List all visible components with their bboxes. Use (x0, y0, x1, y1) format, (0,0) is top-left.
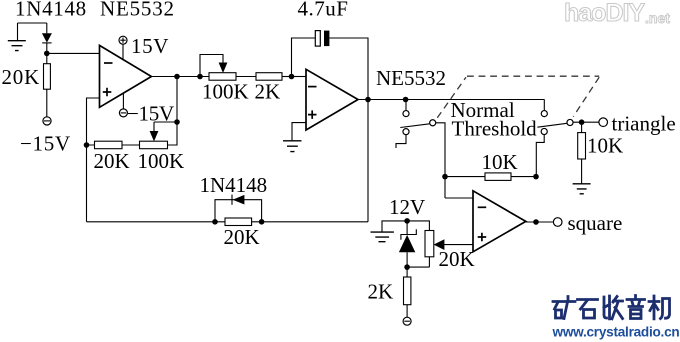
wire node A to U1 inverting input (47, 52, 100, 54)
S1a common pole (430, 120, 436, 126)
terminal square output (553, 218, 562, 227)
svg-text:NE5532: NE5532 (100, 0, 175, 21)
wire U2 non-inverting input to ground (292, 123, 306, 141)
resistor R5 2K (horizontal) (256, 73, 292, 81)
potentiometer R3 100K (horizontal, wiper to output) (140, 122, 178, 149)
svg-text:.net: .net (645, 10, 670, 26)
resistor R7 10K (horizontal feedback) (445, 173, 536, 181)
resistor R1 20K (vertical) (44, 53, 51, 116)
watermark haoDIY.net (564, 0, 670, 27)
op-amp U1 NE5532 (100, 45, 152, 107)
U1 V+ pin with circled plus, 15V (119, 36, 127, 59)
ground G2 (283, 141, 302, 152)
wire node E to ground G4 (382, 221, 407, 232)
zener diode Z1 12V (cathode up) (399, 221, 416, 267)
potentiometer R4 100K (frequency, rheostat link) (200, 55, 256, 81)
wire U2 output down to timing feedback (367, 100, 369, 222)
svg-text:20K: 20K (94, 149, 130, 173)
U1 V- pin with circled minus, -15V (119, 93, 127, 117)
wire U1 output to node C (151, 77, 200, 123)
wire ground to diode D1 (18, 22, 47, 24)
S1b normal contact (541, 111, 547, 117)
node R6/D2 right (259, 219, 265, 225)
S1a normal contact (403, 111, 409, 117)
capacitor C1 4.7uF (polarized) (315, 31, 329, 46)
ground G1 (top-left) (8, 23, 26, 51)
wire U2 output bus (358, 99, 545, 101)
resistor R6 20K (timing, horizontal) (225, 218, 252, 226)
svg-text:12V: 12V (389, 195, 425, 219)
svg-text:20K: 20K (224, 225, 260, 249)
S1b threshold stub to comparator node (536, 135, 544, 177)
wire node D to U2 inverting input (292, 76, 307, 78)
node R7 left (442, 174, 448, 180)
svg-text:100K: 100K (138, 149, 185, 173)
node R7 right (533, 174, 539, 180)
svg-text:Threshold: Threshold (452, 116, 538, 140)
supply terminal -15V (circled minus, under R10) (403, 317, 411, 325)
node R6/D2 left (212, 219, 218, 225)
resistor R8 10K (vertical, triangle load) (578, 122, 586, 184)
diode D1 1N4148 (vertical, cathode down) (42, 23, 52, 53)
node U1 output (174, 74, 180, 80)
node E (zener top / ground / pot top) (404, 218, 410, 224)
svg-text:4.7uF: 4.7uF (298, 0, 349, 21)
terminal triangle output (599, 118, 608, 127)
svg-text:square: square (568, 211, 623, 235)
ground G4 (371, 232, 394, 242)
svg-text:−15V: −15V (20, 132, 71, 156)
switch S1a contact from U2 output (405, 100, 407, 111)
wire S1b common to triangle output (573, 121, 599, 124)
svg-text:1N4148: 1N4148 (200, 173, 268, 197)
resistor R10 2K (vertical) (404, 267, 411, 317)
switch gang linkage (dashed) (437, 76, 599, 118)
svg-text:1N4148: 1N4148 (15, 0, 87, 21)
S1a open stub (396, 135, 406, 148)
diode D2 1N4148 (parallel with R6, cathode left) (215, 195, 262, 222)
resistor R2 20K (horizontal) (87, 141, 140, 149)
svg-text:10K: 10K (587, 134, 623, 158)
svg-text:triangle: triangle (612, 112, 676, 136)
node A (D1 / R1 / U1 inverting input) (44, 51, 50, 57)
svg-text:100K: 100K (202, 80, 249, 104)
wire U3 output to square terminal (526, 221, 554, 223)
svg-text:15V: 15V (131, 34, 169, 58)
node R4 left terminal (197, 74, 203, 80)
ground G3 (573, 184, 591, 194)
wire U1 non-inverting input, down to feedback node (87, 98, 100, 222)
potentiometer R9 20K (vertical, wiper to U3 +) (407, 221, 473, 267)
S1a threshold contact (403, 129, 409, 135)
op-amp U3 NE5532 (comparator) (473, 191, 526, 252)
node U3 output (533, 219, 539, 225)
wire comparator inverting input (445, 197, 473, 199)
node U2 output (365, 97, 371, 103)
op-amp U2 NE5532 (integrator) (306, 69, 358, 130)
node D (U2 inverting input / C1) (289, 74, 295, 80)
wire timing feedback bottom (87, 221, 369, 223)
svg-text:2K: 2K (255, 80, 281, 104)
node F (zener anode / R9 bottom / R10 top) (404, 264, 410, 270)
wire C1 to U2 output vertical (329, 38, 368, 100)
node triangle output (579, 119, 585, 125)
S1a wiper arm (400, 124, 429, 128)
S1b wiper arm (537, 123, 567, 127)
svg-text:20K: 20K (2, 65, 41, 89)
switch S1b contact from U2 output (543, 100, 545, 111)
S1b threshold contact (541, 128, 547, 134)
S1b common pole (567, 119, 573, 125)
wire node D up to capacitor C1 (292, 38, 316, 77)
svg-text:www.crystalradio.cn: www.crystalradio.cn (552, 325, 680, 340)
svg-text:2K: 2K (368, 280, 394, 304)
wire S1a common to comparator network (436, 123, 445, 198)
node switch S1a feed (403, 97, 409, 103)
node B (hysteresis divider junction) (84, 142, 90, 148)
svg-text:10K: 10K (482, 150, 518, 174)
svg-text:20K: 20K (439, 247, 475, 271)
node C (R3 wiper tie) (174, 119, 180, 125)
watermark crystalradio logo (CJK) (553, 296, 670, 319)
svg-text:haoDIY: haoDIY (564, 0, 645, 27)
svg-text:NE5532: NE5532 (376, 66, 446, 90)
supply terminal -15V (circled minus, under R1) (43, 117, 51, 125)
